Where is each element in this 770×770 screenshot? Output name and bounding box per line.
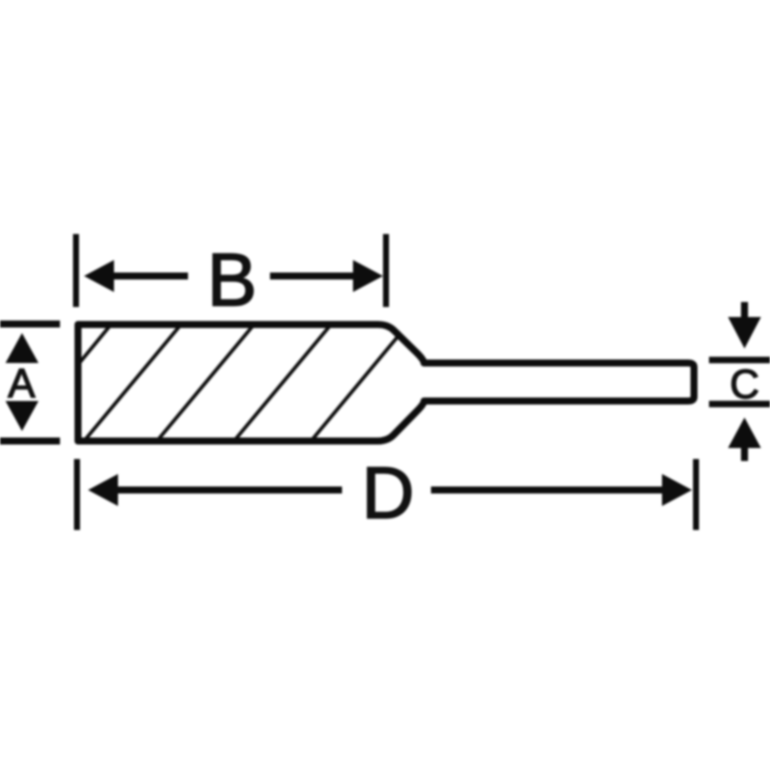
svg-text:A: A — [8, 360, 36, 406]
dimension C: down arrow — [741, 302, 748, 322]
dimension A: up triangle — [6, 333, 39, 363]
dimension C: top extension line — [709, 357, 770, 364]
burr body outline (head + taper + shank) — [78, 325, 694, 442]
dimension D: right arrow — [662, 474, 692, 506]
dimension A: top extension line — [0, 321, 60, 328]
hatch line 3 — [157, 325, 254, 442]
svg-text:D: D — [362, 453, 415, 534]
dimension B: right tick — [383, 234, 389, 307]
dimension B: right arrow — [353, 260, 383, 292]
dimension D: left tick — [74, 459, 80, 530]
dimension D: left arrow — [88, 474, 118, 506]
hatch line 1 (short, top-left corner) — [78, 325, 111, 365]
dimension A: down triangle — [6, 401, 39, 431]
hatch line 5 (ends on taper) — [311, 338, 397, 442]
svg-text:C: C — [730, 361, 760, 407]
dimension C: up arrow — [728, 418, 761, 449]
dimension A: bottom extension line — [0, 438, 60, 445]
dimension C: bottom extension line — [709, 401, 770, 408]
dimension B: left arrow — [84, 260, 114, 292]
dimension D: right tick — [693, 459, 699, 530]
hatch line 4 — [234, 325, 331, 442]
dimension B: left tick — [73, 234, 79, 307]
hatch line 2 — [84, 325, 181, 442]
svg-text:B: B — [207, 238, 257, 322]
